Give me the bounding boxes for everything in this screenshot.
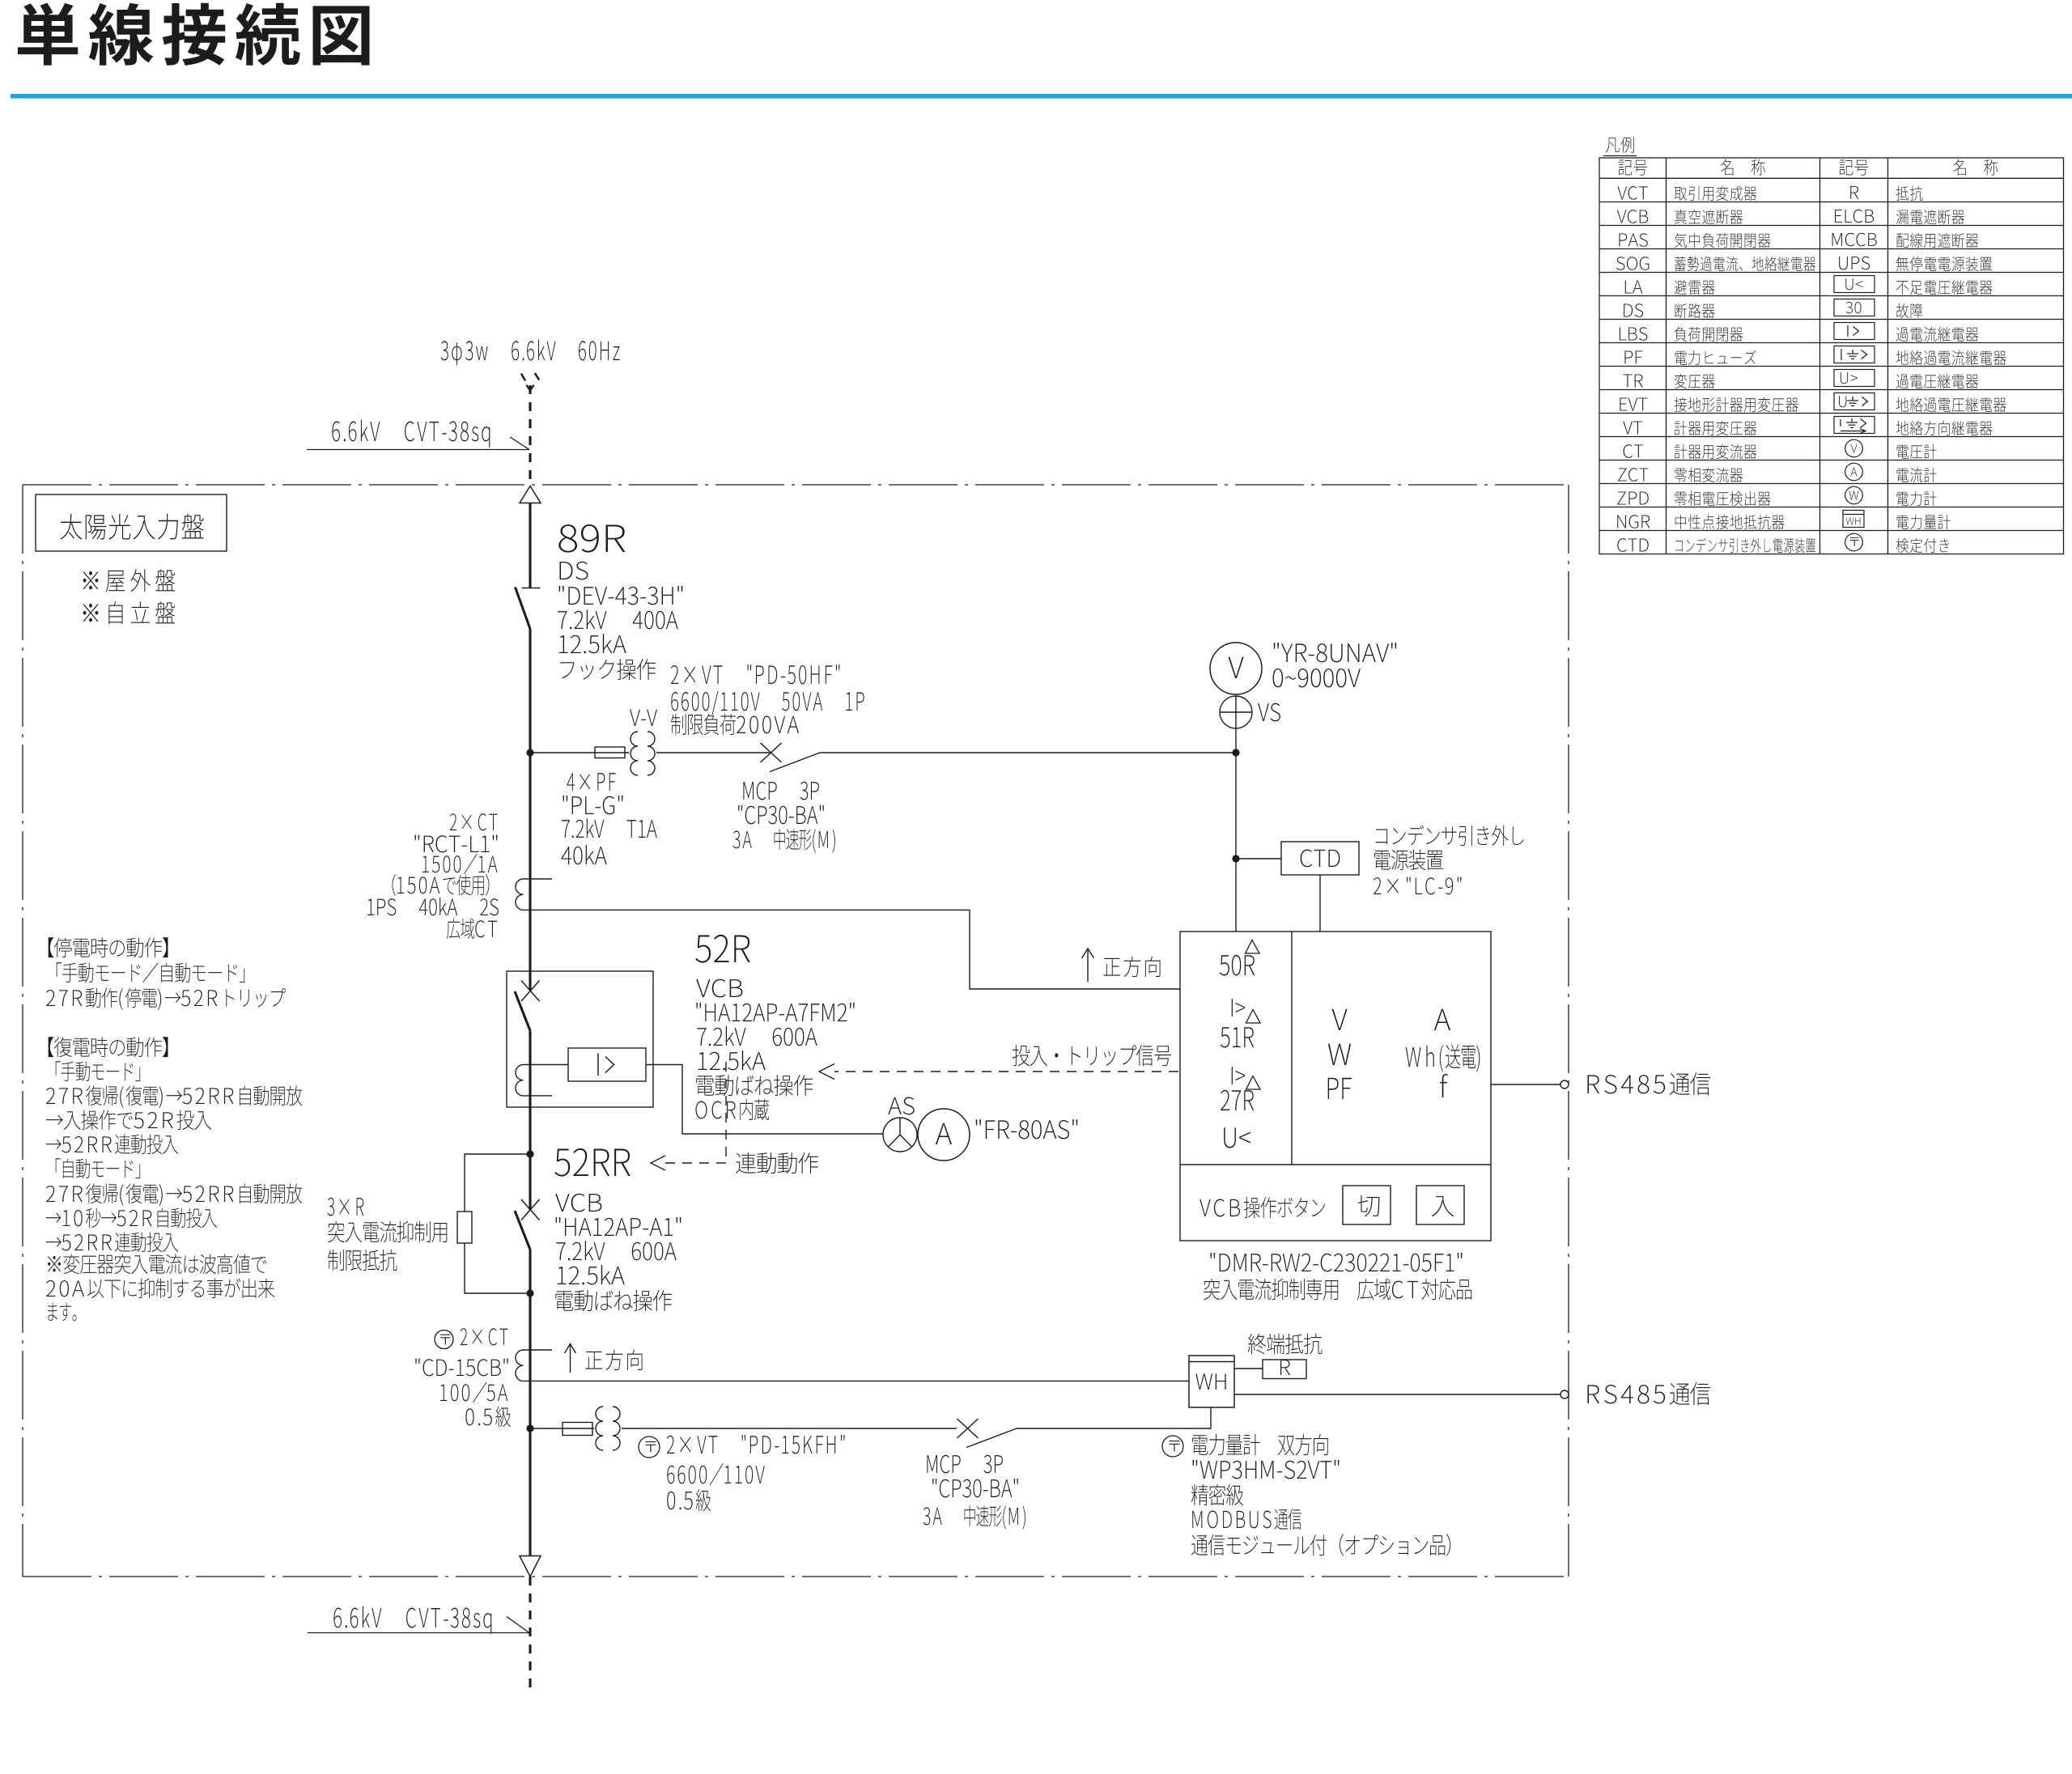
terminal circle RS485 (WH) — [1560, 1390, 1569, 1398]
note block 停電時の動作 — [46, 937, 286, 1010]
relay element 51R — [1221, 1010, 1260, 1048]
wire outgoing dashed cable (bottom) — [529, 1577, 531, 1687]
current transformer (OCR sensing) in 52R — [516, 1065, 568, 1096]
circuit protector MCP (top) — [761, 743, 821, 772]
circuit protector MCP (bottom) — [957, 1419, 1017, 1448]
label MCP 3P "CP30-BA" (top) — [733, 782, 835, 853]
label 〒電力量計 双方向 "WP3HM-S2VT" — [1162, 1434, 1450, 1556]
legend header row 記号/名称 — [1618, 159, 1998, 176]
label "DMR-RW2-C230221-05F1" — [1210, 1253, 1462, 1271]
legend symbol U ground > earth-fault overvoltage relay box — [1834, 393, 1875, 410]
wire CTD to relay unit — [1319, 875, 1321, 932]
wire incoming dashed cable (top) — [529, 385, 531, 485]
legend row CT 計器用変流器 / 電圧計 — [1624, 444, 1937, 459]
label 〒2×CT "CD-15CB" ratings — [415, 1328, 511, 1427]
panel enclosure chain-line border (bottom) — [23, 1576, 1569, 1577]
relay element I> (50R) — [1232, 999, 1245, 1016]
fuse (bottom VT primary) — [563, 1423, 592, 1436]
legend row SOG 蓄勢過電流、地絡継電器 / 無停電電源装置 — [1616, 257, 1992, 271]
label 89R DS "DEV-43-3H" ratings — [558, 524, 682, 680]
label 52RR VCB "HA12AP-A1" ratings — [554, 1148, 681, 1311]
wire main bus (node to 52R breaker) — [529, 753, 531, 991]
legend row TR 変圧器 / 過電圧継電器 — [1623, 374, 1978, 388]
wire VT branch (node to fuse and windings) — [530, 752, 629, 753]
legend row PAS 気中負荷開閉器 / 配線用遮断器 — [1619, 233, 1978, 248]
button 切 (open) — [1343, 1186, 1391, 1224]
entry arrow (hollow triangle up) — [520, 486, 541, 503]
legend row VT 計器用変圧器 / 地絡方向継電器 — [1623, 421, 1992, 435]
legend symbol U< undervoltage relay box — [1834, 276, 1875, 293]
label VS — [1258, 703, 1280, 722]
wire RS485 from WH meter — [1234, 1394, 1560, 1395]
voltmeter V "YR-8UNAV" — [1210, 643, 1262, 694]
legend row LBS 負荷開閉器 / 過電流継電器 — [1620, 327, 1978, 342]
legend symbol voltmeter circle V — [1845, 439, 1863, 457]
legend row ZPD 零相電圧検出器 / 電力計 — [1617, 491, 1936, 506]
wire CT secondary to WH meter — [524, 1380, 1190, 1381]
forward direction arrow 正方向 (top) — [1082, 949, 1161, 982]
legend symbol wattmeter circle W — [1845, 486, 1863, 504]
meter display Wh(送電) — [1406, 1045, 1480, 1072]
wire CT secondary to protection relay — [524, 910, 1181, 989]
wire main bus (52R blade to 52RR node) — [529, 1031, 531, 1211]
cable label 6.6kV CVT-38sq (top) with leader — [307, 420, 529, 450]
label V-V — [630, 710, 657, 726]
voltage transformer 2×VT V-V windings — [631, 732, 655, 775]
capacitor trip device CTD box — [1281, 842, 1359, 875]
legend row EVT 接地形計器用変圧器 / 地絡過電圧継電器 — [1620, 397, 2006, 412]
legend row LA 避雷器 / 不足電圧継電器 — [1625, 280, 1993, 295]
button 入 (close) — [1416, 1186, 1464, 1224]
voltage transformer 2×VT "PD-15KFH" windings — [596, 1407, 620, 1450]
wire bottom VT branch (node to fuse) — [530, 1428, 594, 1429]
cable label 6.6kV CVT-38sq (bottom) with leader — [308, 1606, 529, 1634]
vacuum circuit breaker 52R enclosure box — [507, 971, 653, 1107]
legend row NGR 中性点接地抵抗器 / 電力量計 — [1617, 515, 1951, 529]
watt-hour meter WH box — [1189, 1356, 1234, 1407]
source label 3φ3w 6.6kV 60Hz — [441, 340, 620, 366]
legend symbol 30 fault box — [1834, 299, 1875, 316]
node junction resistor bypass (top) — [526, 1150, 533, 1157]
panel name box 太陽光入力盤 — [36, 494, 227, 551]
legend symbol I ground > earth-fault overcurrent relay box — [1834, 346, 1875, 363]
label 2×VT "PD-50HF" ratings — [671, 664, 864, 735]
legend symbol R — [1850, 186, 1858, 199]
relay element 27R — [1221, 1076, 1260, 1111]
legend row CTD コンデンサ引き外し電源装置 / 検定付き — [1617, 538, 1949, 553]
legend row ZCT 零相変流器 / 電流計 — [1618, 468, 1937, 482]
panel enclosure chain-line border (right) — [1568, 485, 1569, 1577]
wire main bus (DS to VT branch node) — [529, 629, 531, 753]
label RS485通信 (relay) — [1587, 1072, 1710, 1095]
terminating resistor R box 終端抵抗 — [1248, 1334, 1323, 1379]
legend symbol I> overcurrent relay box — [1834, 323, 1875, 340]
meter display PF — [1328, 1078, 1352, 1099]
note ※屋外盤 — [83, 569, 175, 592]
meter display V — [1332, 1009, 1348, 1030]
note ※自立盤 — [83, 601, 175, 624]
meter display f — [1440, 1074, 1448, 1097]
wire bottom VT secondary (windings to MCP) — [622, 1428, 957, 1429]
wire bottom VT secondary (MCP to WH meter) — [1017, 1407, 1211, 1428]
title 単線接続図 — [18, 3, 370, 66]
meter display W — [1328, 1044, 1351, 1065]
forward direction arrow 正方向 (bottom) — [565, 1344, 643, 1373]
legend row DS 断路器 / 故障 — [1624, 303, 1922, 318]
legend heading 凡例 — [1603, 137, 1637, 156]
node junction resistor bypass (bottom) — [526, 1289, 533, 1297]
legend symbol ammeter circle A — [1845, 463, 1863, 481]
wire resistor bypass branch (lower) — [465, 1243, 530, 1293]
blue title rule — [11, 94, 2072, 99]
wire VT secondary (MCP to voltmeter node) — [820, 752, 1236, 753]
panel enclosure chain-line border (top) — [23, 484, 1569, 486]
resistor 3×R current limiting — [457, 1212, 472, 1243]
legend row VCB 真空遮断器 / 漏電遮断器 — [1617, 210, 1964, 224]
label 52R VCB "HA12AP-A7FM2" ratings — [695, 935, 854, 1120]
legend symbol directional ground relay box — [1834, 417, 1875, 434]
node junction voltmeter branch — [1232, 749, 1239, 756]
node junction CTD tap — [1232, 855, 1239, 862]
relay element 50R — [1220, 940, 1259, 976]
label RS485通信 (WH) — [1587, 1382, 1710, 1405]
label VCB操作ボタン — [1199, 1197, 1325, 1218]
legend symbol WH watt-hour meter box — [1843, 511, 1864, 528]
wire main bus (triangle to DS) — [529, 503, 531, 588]
legend symbol UPS — [1839, 257, 1870, 270]
current transformer 2×CT on main bus — [516, 879, 552, 910]
wire CTD tap — [1236, 858, 1281, 859]
exit arrow (hollow triangle down) — [520, 1556, 541, 1577]
relay element I> (51R) — [1232, 1067, 1245, 1084]
legend symbol ELCB — [1835, 210, 1874, 223]
label コンデンサ引き外し電源装置 2×"LC-9" — [1374, 825, 1523, 895]
dashed trip signal 投入・トリップ信号 — [819, 1045, 1178, 1080]
legend row VCT 取引用変成器 / 抵抗 — [1617, 186, 1922, 201]
legend symbol certified meter circle 〒 — [1845, 533, 1863, 551]
label 3×R 突入電流抑制用 制限抵抗 — [328, 1198, 448, 1271]
protection relay unit DMR-RW2 outer box — [1180, 932, 1491, 1241]
incoming line break marks — [522, 374, 539, 391]
wire WH to terminating resistor — [1234, 1368, 1263, 1369]
current transformer 〒2×CT "CD-15CB" on main bus — [516, 1350, 552, 1381]
voltmeter selector switch VS — [1220, 696, 1252, 728]
overcurrent relay element I> box — [568, 1048, 646, 1081]
breaker contact X and blade 52RR — [515, 1199, 540, 1250]
terminal circle RS485 (relay) — [1560, 1080, 1569, 1089]
label "YR-8UNAV" 0~9000V — [1273, 643, 1397, 687]
wire RS485 from relay unit — [1491, 1084, 1560, 1085]
panel enclosure chain-line border (left) — [22, 485, 23, 1577]
legend table frame — [1599, 158, 2064, 554]
label 2×CT "RCT-L1" ratings — [367, 813, 499, 939]
breaker contact X and blade 52R — [515, 981, 540, 1031]
meter display A — [1434, 1009, 1450, 1030]
power fuse 4×PF "PL-G" — [595, 747, 625, 758]
label 4×PF "PL-G" ratings — [561, 773, 656, 864]
label 突入電流抑制専用 広域CT対応品 — [1204, 1279, 1471, 1300]
dashed interlock link 連動動作 — [651, 1062, 818, 1173]
relay element U< (27R) — [1224, 1127, 1250, 1148]
label MCP 3P "CP30-BA" (bottom) — [923, 1455, 1025, 1530]
wire VT secondary (windings to MCP) — [656, 752, 771, 753]
node junction bottom VT branch — [526, 1424, 533, 1432]
wire main bus (52RR to bottom CT and branch node) — [529, 1250, 531, 1555]
label 〒2×VT "PD-15KFH" ratings — [639, 1435, 844, 1511]
wire resistor bypass branch (upper) — [465, 1154, 530, 1212]
disconnect switch DS 89R — [516, 588, 541, 630]
note block 復電時の動作 — [46, 1037, 302, 1321]
legend symbol MCCB — [1832, 233, 1877, 247]
ammeter selector switch AS — [883, 1097, 917, 1152]
ammeter A "FR-80AS" — [918, 1109, 1077, 1161]
legend row PF 電力ヒューズ / 地絡過電流継電器 — [1624, 350, 2006, 365]
wire voltmeter drop (VS to relay unit) — [1235, 728, 1237, 932]
wire OCR output to ammeter selector — [646, 1065, 883, 1135]
legend symbol U> overvoltage relay box — [1834, 370, 1875, 387]
node junction at VT branch — [526, 749, 533, 756]
